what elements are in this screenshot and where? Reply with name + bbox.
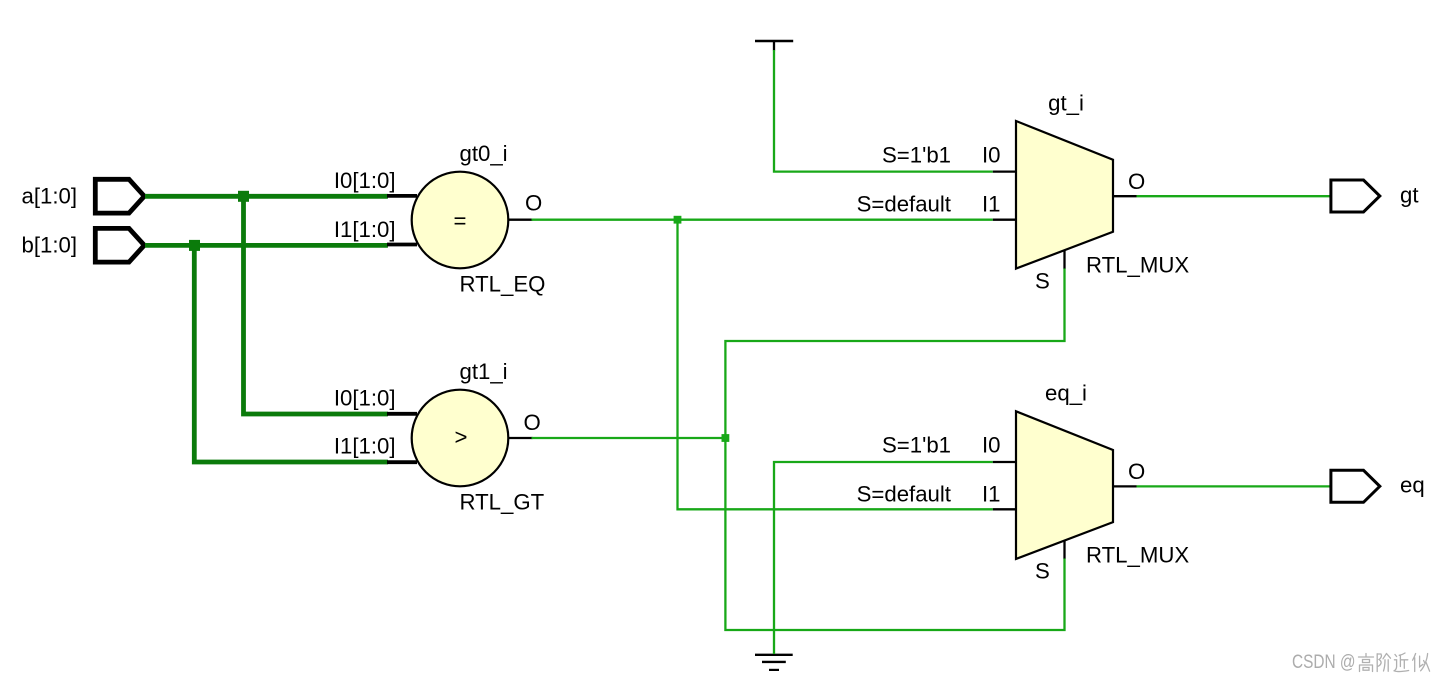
mux gt_i RTL_MUX xyxy=(857,91,1190,294)
pin O stub xyxy=(1113,485,1137,487)
bus wire b branch to gt1_i I1 xyxy=(194,245,388,462)
net eq output wire xyxy=(1137,485,1331,487)
svg-text:RTL_EQ: RTL_EQ xyxy=(460,272,546,297)
watermark glyph 阶 xyxy=(1377,654,1390,672)
comparator gt0_i RTL_EQ xyxy=(334,141,546,297)
pin I0 stub xyxy=(993,170,1016,172)
svg-text:S=1'b1: S=1'b1 xyxy=(882,432,951,457)
comparator gt1_i RTL_GT xyxy=(334,359,545,515)
pin I1 stub xyxy=(993,508,1016,510)
junction net gt0 xyxy=(674,216,682,224)
net gt1 (RTL_GT output) xyxy=(532,437,726,439)
svg-text:S: S xyxy=(1035,268,1050,293)
svg-text:gt: gt xyxy=(1400,183,1419,208)
svg-text:I1[1:0]: I1[1:0] xyxy=(334,434,396,459)
power VCC symbol xyxy=(755,41,793,51)
pin I0[1:0] stub xyxy=(387,194,417,198)
svg-text:I0: I0 xyxy=(982,432,1001,457)
svg-text:S=default: S=default xyxy=(857,481,951,506)
ground symbol xyxy=(755,655,793,670)
pin O stub xyxy=(1113,195,1137,197)
svg-text:a[1:0]: a[1:0] xyxy=(21,184,77,209)
pin I1[1:0] stub xyxy=(387,243,417,247)
bus wire a to gt0_i I0 xyxy=(145,194,388,199)
input port b[1:0] xyxy=(21,228,144,262)
junction net gt1 xyxy=(722,434,730,442)
pin S stub xyxy=(1063,250,1065,268)
net const0 from ground to eq_i I0 xyxy=(774,462,993,654)
watermark glyph 近 xyxy=(1394,653,1409,672)
svg-text:I1: I1 xyxy=(982,481,1001,506)
net gt1 to mux selects xyxy=(725,268,1064,630)
svg-text:O: O xyxy=(525,191,542,216)
svg-text:eq: eq xyxy=(1400,473,1425,498)
pin I1 stub xyxy=(993,219,1016,221)
pin S stub xyxy=(1063,540,1065,558)
svg-text:=: = xyxy=(454,208,467,233)
svg-text:I0[1:0]: I0[1:0] xyxy=(334,386,396,411)
svg-text:S=1'b1: S=1'b1 xyxy=(882,142,951,167)
svg-text:I0[1:0]: I0[1:0] xyxy=(334,168,396,193)
pin O stub xyxy=(509,219,533,221)
watermark CSDN @高阶近似 xyxy=(1292,652,1430,673)
net gt0 branch to eq_i I1 xyxy=(678,220,993,510)
svg-text:I1[1:0]: I1[1:0] xyxy=(334,217,396,242)
output port gt xyxy=(1331,180,1419,212)
svg-text:RTL_MUX: RTL_MUX xyxy=(1086,253,1189,278)
watermark glyph 似 xyxy=(1413,654,1430,672)
pin I1[1:0] stub xyxy=(387,460,417,464)
watermark glyph 高 xyxy=(1359,654,1374,672)
svg-text:gt_i: gt_i xyxy=(1048,91,1084,116)
mux eq_i RTL_MUX xyxy=(857,381,1190,584)
net const1 from VCC to gt_i I0 xyxy=(774,50,993,172)
output port eq xyxy=(1331,470,1425,502)
bus junction on net b xyxy=(189,240,200,251)
svg-text:RTL_GT: RTL_GT xyxy=(460,490,545,515)
bus junction on net a xyxy=(238,191,249,202)
svg-text:b[1:0]: b[1:0] xyxy=(21,233,77,258)
svg-text:>: > xyxy=(455,425,468,450)
svg-text:O: O xyxy=(1128,169,1145,194)
svg-text:RTL_MUX: RTL_MUX xyxy=(1086,543,1189,568)
svg-text:S: S xyxy=(1035,558,1050,583)
svg-text:I1: I1 xyxy=(982,191,1001,216)
svg-text:I0: I0 xyxy=(982,142,1001,167)
svg-text:O: O xyxy=(1128,459,1145,484)
net gt0 (RTL_EQ output) to gt_i I1 xyxy=(532,219,993,221)
svg-text:CSDN @: CSDN @ xyxy=(1292,652,1356,673)
input port a[1:0] xyxy=(21,179,144,213)
pin I0[1:0] stub xyxy=(387,412,417,416)
svg-text:O: O xyxy=(524,410,541,435)
net gt output wire xyxy=(1137,195,1331,197)
svg-text:S=default: S=default xyxy=(857,191,951,216)
svg-text:eq_i: eq_i xyxy=(1045,381,1087,406)
svg-text:gt0_i: gt0_i xyxy=(460,141,508,166)
svg-text:gt1_i: gt1_i xyxy=(460,359,508,384)
bus wire b to gt0_i I1 xyxy=(145,243,388,248)
pin I0 stub xyxy=(993,461,1016,463)
bus wire a branch to gt1_i I0 xyxy=(244,196,388,414)
pin O stub xyxy=(509,437,533,439)
